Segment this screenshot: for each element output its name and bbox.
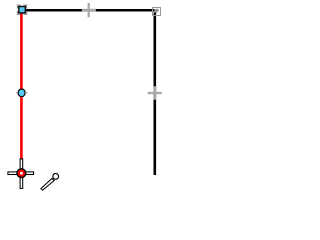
handle: top-left endpoint vertex (cyan square with grip dots) [17, 5, 27, 14]
cursor: four-arm crosshair with red hub over red wire end [8, 159, 34, 189]
junction cross on right wire [148, 86, 162, 100]
wire: left vertical selected net segment (red) [20, 9, 23, 159]
wire: right vertical black net segment [154, 12, 157, 175]
icon: pin/probe tool glyph [41, 174, 59, 191]
wire: top horizontal black net segment [22, 9, 155, 12]
handle: mid vertex on red wire (cyan octagon with side ticks) [16, 89, 27, 96]
marker: top-right corner gray box with diagonal arrow glyph [153, 8, 161, 16]
junction cross on top wire [82, 3, 96, 17]
